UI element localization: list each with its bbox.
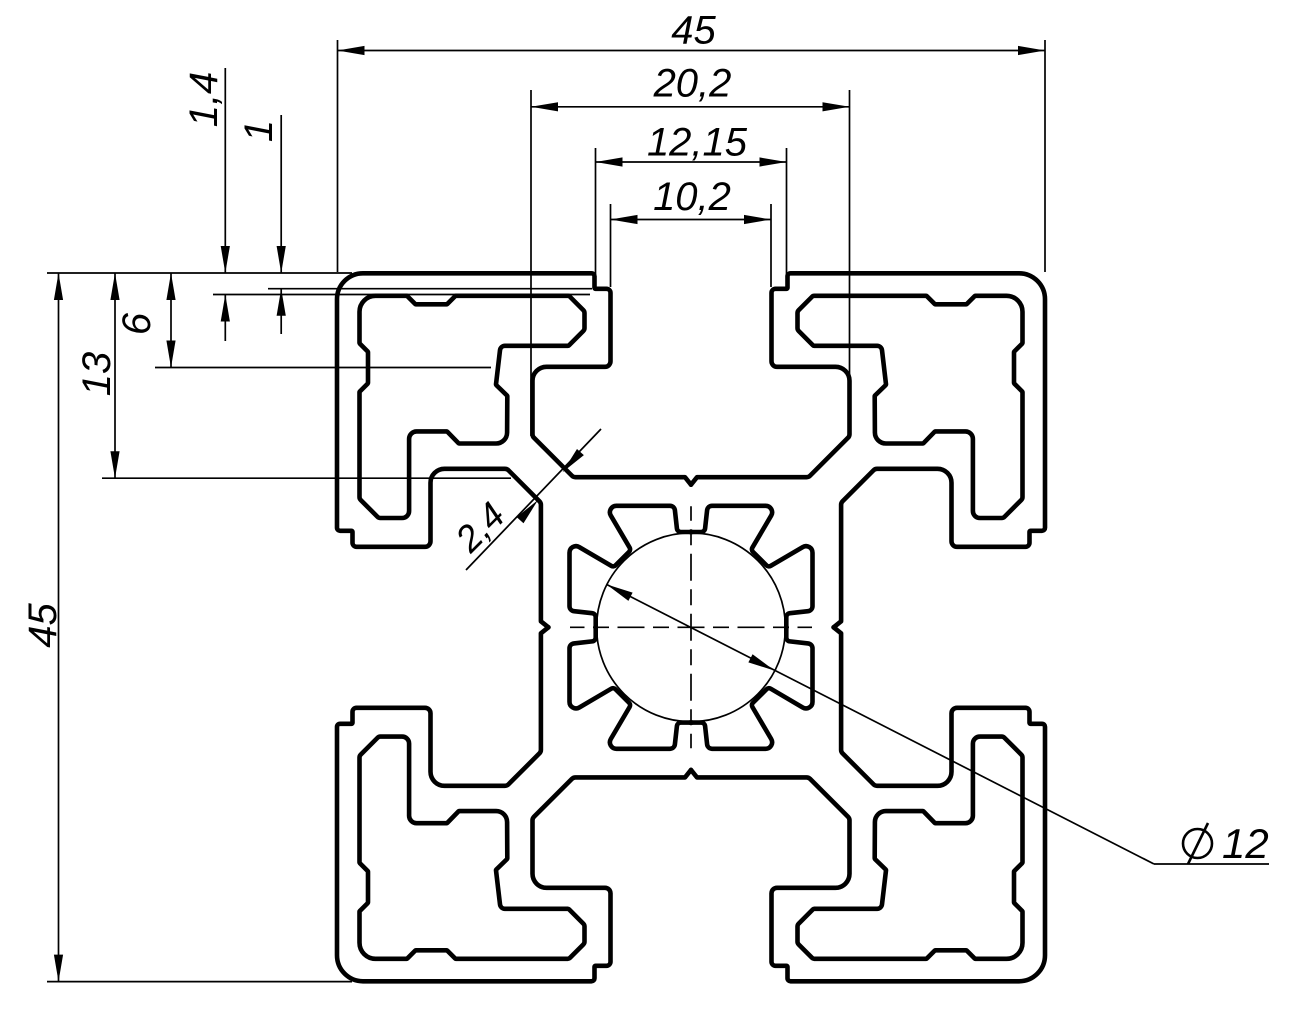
ext line 12,15 left	[595, 148, 597, 287]
top-left quadrant	[337, 273, 692, 628]
ext line depth 6	[155, 367, 491, 369]
dim line 1 upper	[280, 115, 282, 273]
ext line depth 1	[268, 288, 592, 290]
dim line 45 top	[338, 50, 1046, 52]
dim line 12,15	[596, 161, 787, 163]
svg-text:45: 45	[21, 603, 65, 648]
svg-text:1: 1	[237, 120, 281, 142]
arrow 10,2 left	[611, 215, 638, 224]
arrow 2,4 lower	[517, 497, 542, 523]
ext line top edge	[47, 272, 352, 274]
arrow 13 bottom	[110, 451, 119, 478]
svg-text:45: 45	[671, 9, 716, 53]
centerline horizontal	[570, 626, 812, 628]
arrow 45 left top	[54, 273, 63, 300]
ext line 20,2 right	[849, 90, 851, 436]
arrow 45 top left	[338, 46, 365, 55]
arrow 20,2 right	[823, 102, 850, 111]
central bore circle (diameter 12)	[597, 533, 786, 722]
ext line 10,2 left	[610, 204, 612, 287]
arrow 1,4 lower	[221, 295, 230, 322]
ext line depth 13	[102, 477, 511, 479]
ext line depth 1,4	[213, 294, 590, 296]
arrow 45 left bottom	[54, 955, 63, 982]
bottom-left quadrant	[337, 626, 692, 981]
svg-text:6: 6	[115, 312, 159, 335]
svg-text:20,2: 20,2	[653, 62, 732, 106]
arrow 10,2 right	[744, 215, 771, 224]
arrow 6 top	[166, 273, 175, 300]
arrow 6 bottom	[166, 341, 175, 368]
arrow 1 upper	[277, 246, 286, 273]
svg-text:12,15: 12,15	[647, 121, 748, 165]
centerline vertical	[690, 506, 692, 748]
svg-text:1,4: 1,4	[182, 72, 226, 128]
ext line bottom edge	[47, 981, 352, 983]
diameter symbol	[1183, 823, 1212, 864]
arrow 45 top right	[1018, 46, 1045, 55]
svg-text:13: 13	[75, 352, 119, 397]
dim line 13	[114, 273, 116, 478]
svg-text:10,2: 10,2	[653, 175, 731, 219]
dim line diameter 12	[607, 584, 1155, 864]
arrow 20,2 left	[531, 102, 558, 111]
dim line 1,4 upper	[224, 68, 226, 273]
ext line 45 top-right	[1044, 40, 1046, 272]
ext line 20,2 left	[530, 90, 532, 436]
ext line 12,15 right	[786, 148, 788, 287]
arrow 1,4 upper	[221, 246, 230, 273]
arrow 2,4 upper	[559, 449, 584, 475]
arrow diameter lower	[748, 654, 776, 674]
profile outline: four mirrored quadrants	[337, 273, 1045, 981]
arrowheads	[54, 46, 1045, 982]
dim line 1 lower	[280, 289, 282, 334]
bottom-right quadrant	[690, 626, 1045, 981]
dim line 1,4 lower	[224, 295, 226, 342]
ext line 45 top-left	[337, 40, 339, 272]
svg-text:12: 12	[1222, 820, 1269, 867]
leader diameter tail	[1154, 863, 1269, 865]
ext line 10,2 right	[770, 204, 772, 287]
arrow 1 lower	[277, 289, 286, 316]
dim line 10,2	[611, 219, 772, 221]
dim line 2,4	[466, 429, 601, 570]
arrow 13 top	[110, 273, 119, 300]
dim line 6	[170, 273, 172, 368]
arrow 12,15 left	[596, 157, 623, 166]
arrow diameter upper	[604, 580, 632, 601]
dim line 20,2	[531, 106, 850, 108]
dim line 45 left	[58, 273, 60, 982]
top-right quadrant	[690, 273, 1045, 628]
arrow 12,15 right	[760, 157, 787, 166]
